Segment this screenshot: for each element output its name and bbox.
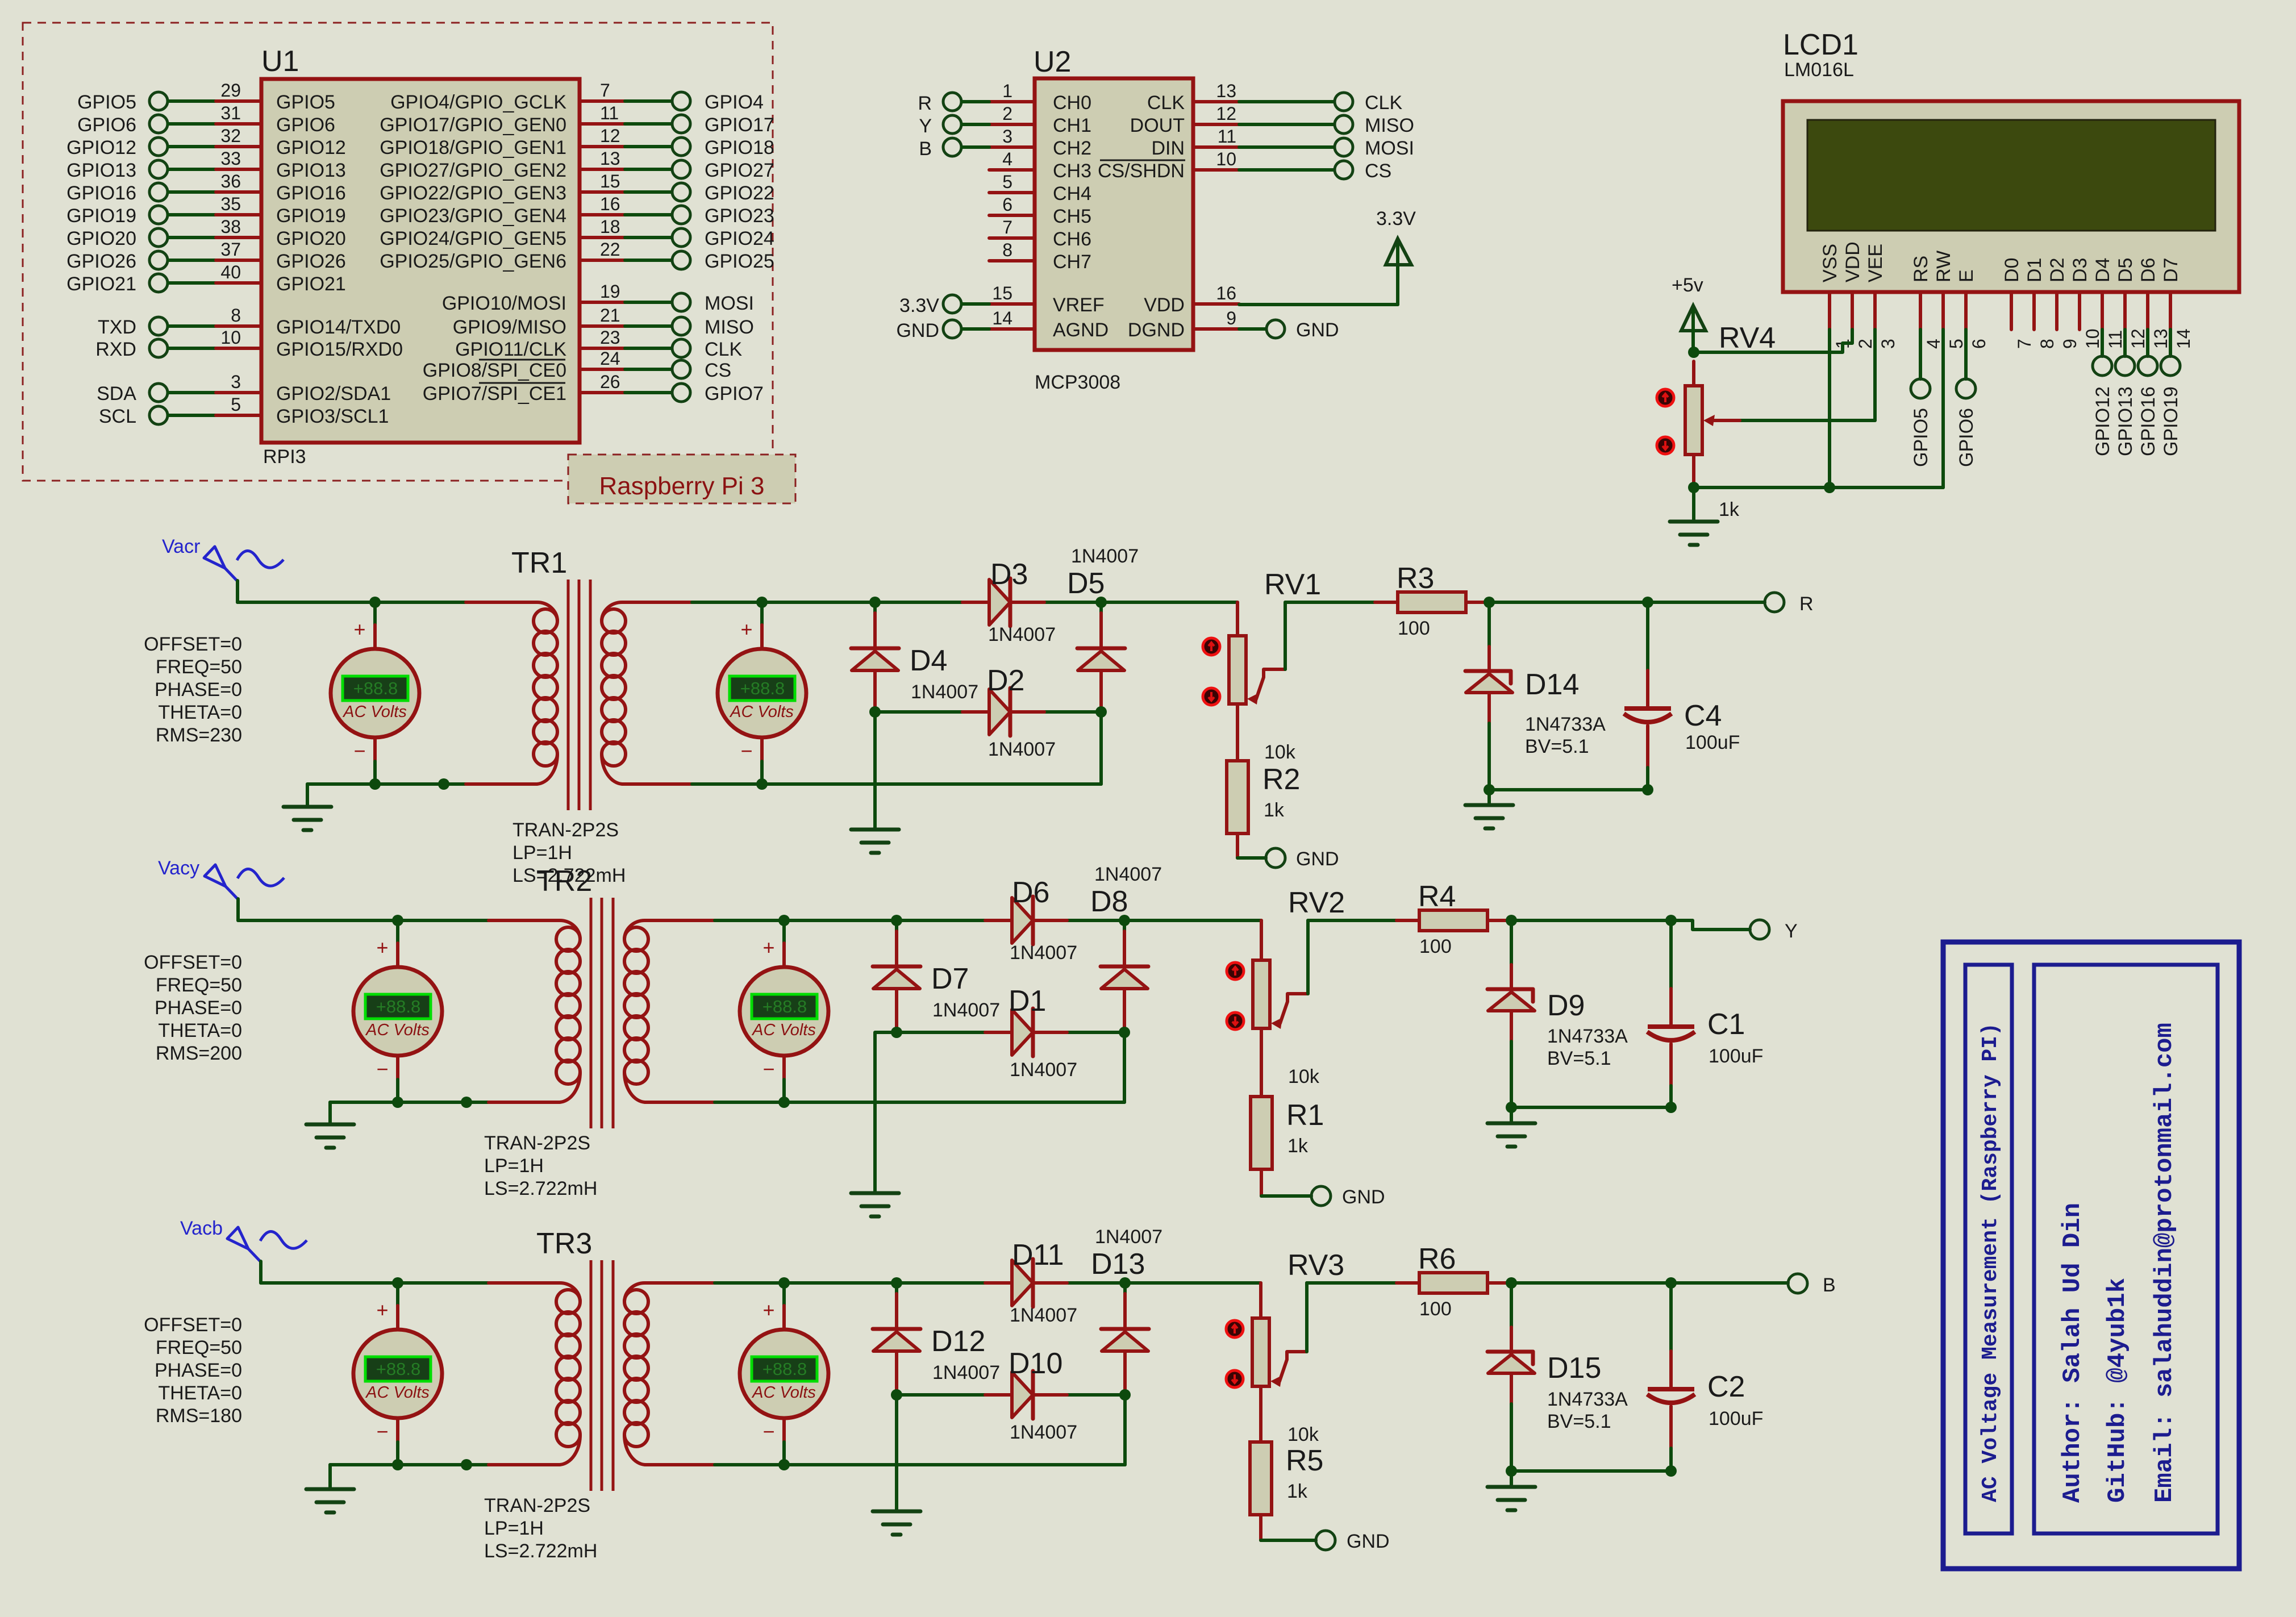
- svg-text:D4: D4: [910, 644, 947, 677]
- svg-text:GPIO27: GPIO27: [705, 160, 774, 181]
- svg-text:GPIO9/MISO: GPIO9/MISO: [453, 316, 566, 338]
- svg-text:GND: GND: [1296, 848, 1339, 870]
- wire output node: [1511, 1281, 1671, 1285]
- node GPIO19 (U1 pin 35): [66, 194, 346, 227]
- svg-text:FREQ=50: FREQ=50: [156, 656, 242, 678]
- overline SPI_CE0: [479, 359, 565, 361]
- node MISO (U1 pin 21): [453, 305, 754, 338]
- resistor R5 (divider 1k): [1250, 1442, 1316, 1540]
- wire VEE (pin3) down to RV4 wiper: [1739, 330, 1875, 420]
- junction cap top: [1665, 1277, 1677, 1289]
- RV1 designator label: [1264, 568, 1321, 601]
- svg-text:RPI3: RPI3: [263, 446, 306, 468]
- svg-text:CH2: CH2: [1053, 137, 1091, 159]
- junction mid right: [1119, 1027, 1130, 1038]
- node GPIO24 (U1 pin 18): [380, 216, 774, 249]
- svg-text:TXD: TXD: [98, 316, 136, 338]
- svg-text:11: 11: [2105, 330, 2126, 349]
- svg-text:GPIO23/GPIO_GEN4: GPIO23/GPIO_GEN4: [380, 205, 566, 227]
- svg-text:CH4: CH4: [1053, 183, 1091, 205]
- U2 pin 3 (CH2): [989, 126, 1091, 159]
- svg-text:+: +: [353, 618, 365, 641]
- junction primary voltmeter bottom: [369, 778, 381, 790]
- svg-text:CLK: CLK: [1147, 92, 1185, 114]
- junction secondary voltmeter top: [778, 915, 790, 926]
- node CS (U1 pin 24): [423, 348, 731, 381]
- node Y (ADC input terminal): [919, 115, 989, 137]
- node GPIO25 (U1 pin 22): [380, 239, 774, 272]
- node GPIO21 (U1 pin 40): [66, 262, 346, 295]
- U2 pin 2 (CH1): [989, 103, 1091, 136]
- Raspberry Pi 3 label box: [568, 455, 795, 503]
- svg-text:15: 15: [600, 171, 620, 191]
- svg-text:B: B: [919, 138, 932, 160]
- junction primary voltmeter top: [369, 597, 381, 608]
- svg-text:1N4007: 1N4007: [1010, 1422, 1077, 1443]
- LCD1 pin 5 (RW): [1933, 251, 1966, 349]
- svg-text:Vacr: Vacr: [162, 536, 200, 557]
- svg-text:GPIO13: GPIO13: [2115, 386, 2136, 456]
- C4 labels: [1684, 699, 1740, 753]
- wire VDD to 3.3V power: [1239, 244, 1398, 305]
- svg-text:TRAN-2P2S: TRAN-2P2S: [512, 819, 619, 841]
- svg-text:7: 7: [1002, 217, 1012, 237]
- wire secondary top: [682, 1281, 1261, 1285]
- U2 pin 12 (DOUT): [1130, 103, 1239, 136]
- LCD1 pin 12 (D5): [2115, 258, 2148, 349]
- svg-text:RV1: RV1: [1264, 568, 1321, 601]
- R2 labels: [1262, 763, 1300, 821]
- svg-text:40: 40: [220, 262, 241, 282]
- svg-text:LS=2.722mH: LS=2.722mH: [484, 1178, 597, 1199]
- resistor R1 (divider 1k): [1251, 1097, 1311, 1196]
- svg-text:16: 16: [600, 194, 620, 214]
- svg-text:C2: C2: [1707, 1370, 1745, 1403]
- node GPIO17 (U1 pin 11): [380, 103, 774, 136]
- svg-text:1k: 1k: [1287, 1481, 1308, 1502]
- D3 labels: [988, 558, 1056, 645]
- svg-text:22: 22: [600, 239, 620, 260]
- svg-text:VDD: VDD: [1144, 294, 1185, 316]
- svg-text:8: 8: [2037, 339, 2057, 349]
- svg-text:R2: R2: [1262, 763, 1300, 796]
- svg-text:D6: D6: [2137, 258, 2159, 282]
- svg-text:GND: GND: [1296, 319, 1339, 341]
- wire zener/cap bottom: [1511, 1469, 1671, 1473]
- svg-text:DIN: DIN: [1151, 137, 1185, 159]
- svg-text:−: −: [376, 1420, 388, 1443]
- svg-text:D7: D7: [2160, 258, 2182, 282]
- node GPIO5 terminal: [1910, 379, 1932, 467]
- svg-text:FREQ=50: FREQ=50: [156, 974, 242, 996]
- svg-text:7: 7: [2014, 339, 2035, 349]
- svg-text:+88.8: +88.8: [353, 678, 398, 698]
- svg-text:LP=1H: LP=1H: [484, 1518, 544, 1539]
- svg-text:1N4007: 1N4007: [988, 739, 1056, 760]
- U1 part label RPI3: [263, 446, 306, 468]
- svg-text:RXD: RXD: [95, 339, 136, 360]
- svg-text:VEE: VEE: [1865, 244, 1886, 282]
- svg-text:1k: 1k: [1264, 799, 1285, 821]
- ground symbol primary side: [284, 784, 331, 830]
- D5 labels: [1067, 545, 1139, 600]
- LCD1 screen: [1807, 120, 2215, 231]
- svg-text:GND: GND: [1347, 1531, 1390, 1552]
- svg-text:GPIO5: GPIO5: [276, 91, 335, 113]
- svg-text:36: 36: [220, 171, 241, 191]
- ground symbol output filter: [1487, 1107, 1535, 1147]
- svg-text:GPIO25: GPIO25: [705, 251, 774, 272]
- svg-text:100uF: 100uF: [1709, 1045, 1763, 1067]
- svg-text:CH7: CH7: [1053, 251, 1091, 273]
- TR3 value labels: [484, 1495, 597, 1562]
- svg-text:13: 13: [2151, 328, 2171, 349]
- LCD1 pin 10 (D3): [2069, 258, 2103, 349]
- svg-text:GPIO24/GPIO_GEN5: GPIO24/GPIO_GEN5: [380, 228, 566, 249]
- svg-text:RV4: RV4: [1719, 322, 1776, 355]
- U2 pin 15 (VREF): [989, 283, 1105, 316]
- svg-text:TRAN-2P2S: TRAN-2P2S: [484, 1495, 590, 1516]
- U1 designator label: [261, 45, 299, 78]
- generator parameter labels: [144, 1314, 242, 1427]
- wire LCD data pin to GPIO12 terminal: [2101, 330, 2104, 356]
- svg-text:100: 100: [1419, 1298, 1452, 1320]
- ground symbol output filter: [1465, 790, 1513, 828]
- voltmeter SEC-TR1: [718, 602, 806, 784]
- svg-text:R6: R6: [1418, 1243, 1456, 1276]
- svg-text:13: 13: [600, 148, 620, 169]
- wire zener/cap bottom: [1489, 788, 1648, 791]
- svg-text:GPIO20: GPIO20: [276, 228, 346, 249]
- svg-text:10: 10: [220, 327, 241, 348]
- email line: [2151, 1023, 2179, 1503]
- svg-text:38: 38: [220, 216, 241, 237]
- wire VDD (pin2) down to +5v rail: [1694, 330, 1852, 352]
- wire zener/cap bottom: [1511, 1106, 1671, 1109]
- wire pot wiper output: [1285, 602, 1375, 669]
- U2 pin 11 (DIN): [1151, 126, 1239, 159]
- wire U2 to CS terminal: [1239, 160, 1391, 182]
- junction diode branch top: [891, 915, 902, 926]
- U2 pin 5 (CH4): [989, 172, 1091, 205]
- U2 pin 6 (CH5): [989, 194, 1091, 227]
- svg-text:AC Volts: AC Volts: [751, 1021, 816, 1039]
- svg-text:AC Volts: AC Volts: [342, 703, 407, 721]
- svg-text:2: 2: [1002, 103, 1012, 124]
- svg-text:D4: D4: [2092, 258, 2114, 282]
- svg-text:31: 31: [220, 103, 241, 123]
- node GPIO13 terminal: [2115, 356, 2136, 456]
- node CLK (U1 pin 23): [455, 327, 742, 360]
- svg-text:GPIO2/SDA1: GPIO2/SDA1: [276, 383, 391, 405]
- svg-text:Vacy: Vacy: [158, 857, 199, 879]
- D7 labels: [931, 962, 1000, 1021]
- svg-text:GPIO10/MOSI: GPIO10/MOSI: [442, 293, 566, 314]
- D11 labels: [1010, 1239, 1077, 1326]
- LCD1 pin 4 (RS): [1910, 256, 1944, 349]
- resistor R2 (divider 1k): [1227, 761, 1266, 858]
- svg-text:CLK: CLK: [1365, 92, 1402, 114]
- svg-text:1N4007: 1N4007: [932, 1362, 1000, 1383]
- U2 pin 9 (DGND): [1128, 308, 1239, 341]
- svg-text:4: 4: [1002, 149, 1012, 169]
- overline SPI_CE1: [479, 382, 565, 384]
- svg-text:Raspberry Pi 3: Raspberry Pi 3: [599, 472, 764, 500]
- wire VSS (pin1) down to ground rail: [1828, 330, 1831, 487]
- AC source Vacr: [204, 547, 284, 602]
- junction cap top: [1642, 597, 1653, 608]
- D6 labels: [1010, 876, 1077, 964]
- sub-sheet dashed border (Raspberry Pi 3): [23, 23, 773, 481]
- svg-text:VDD: VDD: [1842, 241, 1864, 282]
- svg-text:GPIO16: GPIO16: [66, 182, 136, 204]
- node GPIO23 (U1 pin 16): [380, 194, 774, 227]
- svg-text:D0: D0: [2001, 258, 2023, 282]
- svg-text:PHASE=0: PHASE=0: [155, 1360, 242, 1381]
- wire DGND to GND terminal: [1239, 327, 1266, 331]
- resistor R3 (100): [1375, 592, 1489, 612]
- power +5v label: [1672, 274, 1703, 296]
- wire output node: [1489, 601, 1648, 604]
- svg-text:−: −: [762, 1057, 774, 1081]
- wire bridge to ground: [873, 712, 877, 830]
- wire E (pin6) to GPIO6 terminal: [1964, 330, 1968, 379]
- svg-text:GPIO24: GPIO24: [705, 228, 774, 249]
- node SDA (U1 pin 3): [97, 372, 391, 405]
- svg-text:+: +: [740, 618, 752, 641]
- svg-text:11: 11: [600, 103, 619, 123]
- diode D14 (1N4733A zener): [1465, 602, 1512, 790]
- svg-text:R: R: [1799, 593, 1814, 615]
- svg-text:Y: Y: [1785, 920, 1798, 942]
- svg-text:1N4007: 1N4007: [911, 681, 978, 703]
- svg-text:33: 33: [220, 148, 241, 169]
- RV4 designator label: [1719, 322, 1776, 355]
- D1 labels: [1009, 985, 1077, 1081]
- svg-text:D12: D12: [931, 1325, 985, 1358]
- junction cap bottom: [1665, 1102, 1677, 1113]
- wire mid row: [897, 1393, 1125, 1397]
- wire ground rail: [1694, 486, 1943, 489]
- svg-text:29: 29: [220, 80, 241, 101]
- diode D4 (left vertical): [851, 602, 899, 712]
- svg-text:MOSI: MOSI: [705, 293, 754, 314]
- U2 part label MCP3008: [1035, 372, 1120, 393]
- svg-text:1k: 1k: [1719, 499, 1740, 520]
- svg-text:14: 14: [2173, 328, 2194, 349]
- wire secondary top: [659, 601, 1237, 604]
- svg-text:PHASE=0: PHASE=0: [155, 679, 242, 701]
- resistor R6 (100): [1397, 1273, 1511, 1293]
- wire U2 to MOSI terminal: [1239, 137, 1414, 159]
- node GPIO18 (U1 pin 12): [380, 126, 774, 159]
- github line: [2103, 1278, 2132, 1503]
- D15 labels: [1547, 1352, 1628, 1432]
- LCD1 pin 3 (VEE): [1865, 244, 1898, 349]
- wire U2 to MISO terminal: [1239, 115, 1414, 136]
- U2 pin 7 (CH6): [989, 217, 1091, 250]
- svg-text:9: 9: [2060, 339, 2080, 349]
- potentiometer RV1: [1229, 602, 1285, 761]
- capacitor C1 (100uF): [1647, 920, 1695, 1107]
- node GPIO4 (U1 pin 7): [390, 80, 764, 113]
- svg-text:C1: C1: [1707, 1008, 1745, 1041]
- svg-text:1N4007: 1N4007: [988, 624, 1056, 645]
- svg-text:10k: 10k: [1287, 1424, 1319, 1445]
- node 3.3V terminal: [899, 295, 989, 316]
- svg-text:RMS=230: RMS=230: [156, 724, 242, 746]
- svg-text:RMS=180: RMS=180: [156, 1405, 242, 1427]
- svg-text:D14: D14: [1525, 668, 1579, 701]
- junction primary-side second dot: [461, 1097, 472, 1108]
- junction zener top: [1484, 597, 1495, 608]
- wire U2 to CLK terminal: [1239, 92, 1402, 114]
- svg-text:GPIO12: GPIO12: [2092, 386, 2114, 456]
- diode D8 (right vertical): [1101, 920, 1148, 1032]
- svg-text:R3: R3: [1397, 562, 1434, 595]
- power +5v arrow: [1681, 306, 1706, 352]
- LCD1 pin 9 (D2): [2047, 258, 2080, 349]
- svg-text:GPIO8/SPI_CE0: GPIO8/SPI_CE0: [423, 360, 566, 381]
- svg-text:MISO: MISO: [1365, 115, 1414, 136]
- svg-text:1N4007: 1N4007: [1071, 545, 1139, 567]
- TR3 designator label: [536, 1227, 592, 1260]
- svg-text:D2: D2: [987, 664, 1024, 697]
- svg-text:37: 37: [220, 239, 241, 260]
- svg-text:GPIO19: GPIO19: [2160, 386, 2182, 456]
- R4 labels: [1418, 880, 1456, 957]
- junction secondary voltmeter bottom: [756, 778, 768, 790]
- node GPIO16 (U1 pin 36): [66, 171, 346, 204]
- svg-text:−: −: [376, 1057, 388, 1081]
- potentiometer RV2: [1253, 920, 1308, 1097]
- ground symbol below RV4: [1670, 487, 1718, 545]
- svg-text:3.3V: 3.3V: [899, 295, 939, 316]
- diode D10 (mid): [985, 1371, 1067, 1419]
- svg-text:GPIO13: GPIO13: [276, 160, 346, 181]
- svg-text:PHASE=0: PHASE=0: [155, 997, 242, 1019]
- wire pot wiper output: [1307, 1283, 1397, 1352]
- svg-text:8: 8: [1002, 240, 1012, 260]
- svg-text:GPIO16: GPIO16: [2137, 386, 2159, 456]
- node GPIO12 terminal: [2092, 356, 2114, 456]
- svg-text:5: 5: [1002, 172, 1012, 192]
- junction zener bottom: [1506, 1102, 1517, 1113]
- C1 labels: [1707, 1008, 1763, 1067]
- svg-text:SCL: SCL: [99, 406, 136, 427]
- svg-text:GPIO22/GPIO_GEN3: GPIO22/GPIO_GEN3: [380, 182, 566, 204]
- junction +5v node: [1688, 347, 1699, 358]
- svg-text:D15: D15: [1547, 1352, 1601, 1385]
- svg-text:8: 8: [231, 305, 241, 326]
- svg-text:10: 10: [1216, 149, 1236, 169]
- svg-text:D2: D2: [2047, 258, 2068, 282]
- voltmeter SEC-TR3: [740, 1283, 828, 1465]
- svg-text:−: −: [740, 739, 752, 762]
- wire primary bottom: [307, 782, 466, 786]
- svg-text:GPIO26: GPIO26: [276, 251, 346, 272]
- wire LCD data pin to GPIO16 terminal: [2146, 330, 2149, 356]
- C2 labels: [1707, 1370, 1763, 1430]
- junction right diode column top: [1119, 1277, 1131, 1289]
- svg-text:21: 21: [600, 305, 620, 326]
- svg-text:GPIO18: GPIO18: [705, 137, 774, 159]
- svg-text:CH0: CH0: [1053, 92, 1091, 114]
- svg-text:D11: D11: [1012, 1239, 1064, 1272]
- svg-text:MOSI: MOSI: [1365, 137, 1414, 159]
- U2 pin 4 (CH3): [989, 149, 1091, 182]
- node GPIO5 (U1 pin 29): [77, 80, 335, 113]
- svg-text:GitHub: @4yub1k: GitHub: @4yub1k: [2103, 1278, 2132, 1503]
- junction right diode column top: [1095, 597, 1107, 608]
- junction zener bottom: [1484, 784, 1495, 795]
- svg-text:GPIO25/GPIO_GEN6: GPIO25/GPIO_GEN6: [380, 251, 566, 272]
- RV4 up adjust button: [1657, 389, 1674, 406]
- voltmeter PRI-TR1: [331, 602, 419, 784]
- svg-text:RV3: RV3: [1287, 1249, 1344, 1282]
- ground symbol output filter: [1487, 1471, 1535, 1510]
- svg-text:C4: C4: [1684, 699, 1722, 732]
- svg-text:AC Volts: AC Volts: [751, 1383, 816, 1402]
- svg-text:GPIO26: GPIO26: [66, 251, 136, 272]
- node GPIO12 (U1 pin 32): [66, 126, 346, 159]
- svg-text:10k: 10k: [1264, 741, 1296, 763]
- svg-text:1: 1: [1002, 81, 1012, 101]
- LCD1 part label LM016L: [1784, 59, 1854, 81]
- svg-text:16: 16: [1216, 283, 1236, 303]
- svg-text:AC Volts: AC Volts: [365, 1021, 430, 1039]
- node GPIO7 (U1 pin 26): [423, 372, 764, 405]
- svg-text:+88.8: +88.8: [376, 1359, 420, 1379]
- svg-text:Author: Salah Ud Din: Author: Salah Ud Din: [2059, 1203, 2087, 1503]
- node GPIO13 (U1 pin 33): [66, 148, 346, 181]
- RV4 value label 1k: [1719, 499, 1740, 520]
- svg-text:GPIO4/GPIO_GCLK: GPIO4/GPIO_GCLK: [390, 91, 566, 113]
- RV3 designator label: [1287, 1249, 1344, 1282]
- title text: [1978, 1023, 2003, 1502]
- svg-text:D1: D1: [1009, 985, 1046, 1018]
- node output terminal B: [1788, 1274, 1836, 1296]
- svg-text:U2: U2: [1034, 45, 1071, 78]
- svg-text:AC Volts: AC Volts: [729, 703, 794, 721]
- svg-text:GPIO15/RXD0: GPIO15/RXD0: [276, 339, 403, 360]
- RV1 value 10k: [1264, 741, 1296, 763]
- node GND terminal (AGND): [896, 320, 989, 341]
- svg-text:1N4007: 1N4007: [932, 999, 1000, 1021]
- svg-text:DGND: DGND: [1128, 319, 1185, 341]
- svg-text:D5: D5: [1067, 567, 1105, 600]
- svg-text:GPIO19: GPIO19: [276, 205, 346, 227]
- node SCL (U1 pin 5): [99, 394, 389, 427]
- node RXD (U1 pin 10): [95, 327, 403, 360]
- junction cap bottom: [1665, 1465, 1677, 1477]
- svg-text:DOUT: DOUT: [1130, 115, 1185, 136]
- svg-text:GPIO12: GPIO12: [276, 137, 346, 159]
- svg-text:GPIO13: GPIO13: [66, 160, 136, 181]
- svg-text:1N4733A: 1N4733A: [1525, 714, 1606, 735]
- op-amp U1 (RPI3 Raspberry Pi block): [261, 79, 580, 443]
- node Vacr label: [162, 536, 200, 557]
- svg-text:19: 19: [600, 281, 620, 302]
- svg-text:GPIO6: GPIO6: [77, 114, 136, 136]
- voltmeter PRI-TR3: [353, 1283, 442, 1465]
- svg-text:D6: D6: [1012, 876, 1049, 909]
- wire pot wiper output: [1308, 920, 1397, 994]
- junction primary-side second dot: [438, 778, 449, 790]
- node GND terminal: [1311, 1186, 1385, 1208]
- svg-text:R4: R4: [1418, 880, 1456, 913]
- svg-text:11: 11: [1218, 126, 1236, 147]
